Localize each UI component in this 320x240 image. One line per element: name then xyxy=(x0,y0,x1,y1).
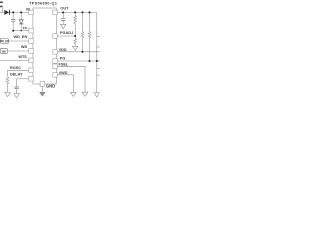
svg-text:ROSC: ROSC xyxy=(10,66,21,70)
node VDD-C xyxy=(82,51,84,53)
wire DELAY vertical xyxy=(16,79,18,87)
capacitor C_DELAY plates xyxy=(14,87,18,89)
wire FSEL xyxy=(57,66,85,92)
wire VWD xyxy=(57,75,73,92)
capacitor C_OUT plates xyxy=(61,18,65,20)
resistor R_VDD xyxy=(81,12,84,51)
junction dots xyxy=(12,11,98,62)
node IN-D2 xyxy=(20,11,22,13)
node OUT-Cout xyxy=(62,11,64,13)
wire load vertical upper xyxy=(96,12,98,36)
wire WTS xyxy=(0,59,29,61)
svg-text:WTS: WTS xyxy=(18,55,27,59)
capacitor C1 stem bottom xyxy=(12,21,14,30)
ground C_OUT xyxy=(60,24,66,28)
IC U1 body xyxy=(33,8,57,84)
node IN-C1 xyxy=(12,11,14,13)
ground FSEL xyxy=(82,92,88,96)
wire IN rail left of diode xyxy=(0,11,4,13)
svg-text:FSEL: FSEL xyxy=(59,62,69,66)
ground load divider xyxy=(94,93,99,98)
zener D2 bar xyxy=(19,23,23,25)
svg-text:WD_EN: WD_EN xyxy=(13,35,27,39)
svg-text:DELAY: DELAY xyxy=(10,73,23,77)
pin DELAY xyxy=(29,77,33,82)
node OUT-Cvdd xyxy=(82,11,84,13)
ground VWD xyxy=(71,92,77,96)
capacitor C_OUT stem xyxy=(62,12,64,18)
svg-text:GND: GND xyxy=(46,83,55,88)
node EN-D2 xyxy=(21,30,22,31)
node PG-load xyxy=(96,60,98,62)
node EN-C1 xyxy=(12,30,14,32)
wire EN net xyxy=(13,30,29,32)
svg-text:TPS56850-Q1: TPS56850-Q1 xyxy=(29,2,57,6)
pin PGADJ xyxy=(53,34,57,39)
pin IN xyxy=(29,10,33,15)
svg-text:WD: WD xyxy=(21,45,28,49)
svg-text:EN: EN xyxy=(23,26,27,30)
svg-text:WD: WD xyxy=(2,50,6,53)
load box (clipped) xyxy=(97,37,102,47)
svg-text:PGADJ: PGADJ xyxy=(60,31,73,35)
input source flag (clipped at left edge) xyxy=(0,2,3,6)
svg-text:VWD: VWD xyxy=(59,71,68,75)
pin boxes left xyxy=(29,10,57,86)
pin PG xyxy=(53,59,57,64)
zener D2 triangle xyxy=(19,20,23,24)
svg-text:IN: IN xyxy=(26,7,30,11)
resistor R_PG xyxy=(88,12,91,61)
pin VWD xyxy=(53,73,57,78)
pin WD xyxy=(29,49,33,54)
labels xyxy=(0,2,73,89)
wire DELAY xyxy=(17,78,29,80)
capacitor C1 plates xyxy=(11,19,15,21)
flag WD_EN xyxy=(0,39,8,44)
flag WD xyxy=(0,49,7,54)
diode D1 xyxy=(4,10,9,15)
capacitor C1 stem top xyxy=(12,12,14,19)
resistor box lower (clipped) xyxy=(97,69,102,76)
ground ROSC xyxy=(5,92,11,96)
wire WD_EN xyxy=(8,40,28,42)
wire IN rail diode to pin xyxy=(10,11,29,13)
pin GND xyxy=(40,82,45,87)
pin FSEL xyxy=(53,64,57,69)
node PGADJ-div xyxy=(74,35,76,37)
wire VDD xyxy=(57,51,100,53)
wire load vertical lower xyxy=(96,47,98,69)
wire PGADJ xyxy=(57,35,75,37)
svg-text:OUT: OUT xyxy=(60,6,69,10)
wire below lower box xyxy=(96,75,98,92)
ground DELAY xyxy=(14,94,20,98)
zener D2 stem bottom xyxy=(20,24,22,31)
svg-text:VDD: VDD xyxy=(59,48,67,52)
node OUT-R1 xyxy=(74,11,76,13)
resistor R1 divider upper xyxy=(74,12,77,38)
resistor R2 divider lower xyxy=(74,39,77,47)
zener D2 stem top xyxy=(20,12,22,19)
wire WD xyxy=(8,50,29,52)
pin OUT xyxy=(53,10,57,15)
node PG-R xyxy=(89,60,91,62)
wire ROSC xyxy=(8,69,29,71)
svg-text:PG: PG xyxy=(60,56,66,60)
pin VDD xyxy=(53,50,57,55)
wire ROSC vertical xyxy=(7,70,9,77)
ground GND xyxy=(40,92,46,96)
pin EN xyxy=(29,28,33,33)
resistor R_ROSC xyxy=(6,77,9,93)
wire OUT xyxy=(57,11,97,13)
wire input stub xyxy=(1,8,3,13)
capacitor C_DELAY stem xyxy=(16,89,18,94)
pin WTS xyxy=(29,58,33,63)
node OUT-Rpg xyxy=(89,11,91,13)
pin WD_EN xyxy=(29,39,33,44)
wire PG xyxy=(57,60,100,62)
capacitor plates xyxy=(11,18,65,88)
pin ROSC xyxy=(29,68,33,73)
wire GND stem xyxy=(41,86,43,92)
ground R2 xyxy=(72,46,78,50)
svg-text:WD_EN: WD_EN xyxy=(0,40,9,43)
